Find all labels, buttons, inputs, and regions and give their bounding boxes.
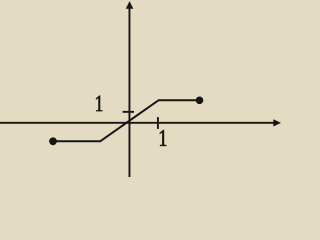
x-axis <box>0 122 274 124</box>
right endpoint dot <box>196 97 204 105</box>
y tick at 1 <box>123 111 134 113</box>
y-axis <box>128 8 130 177</box>
left endpoint dot <box>49 137 57 145</box>
x-axis arrowhead <box>273 119 281 126</box>
x tick at 1 <box>157 117 159 129</box>
label 1 on y-axis <box>96 95 103 111</box>
function curve <box>53 100 200 141</box>
y-axis arrowhead <box>126 1 134 9</box>
label 1 on x-axis <box>160 130 167 146</box>
